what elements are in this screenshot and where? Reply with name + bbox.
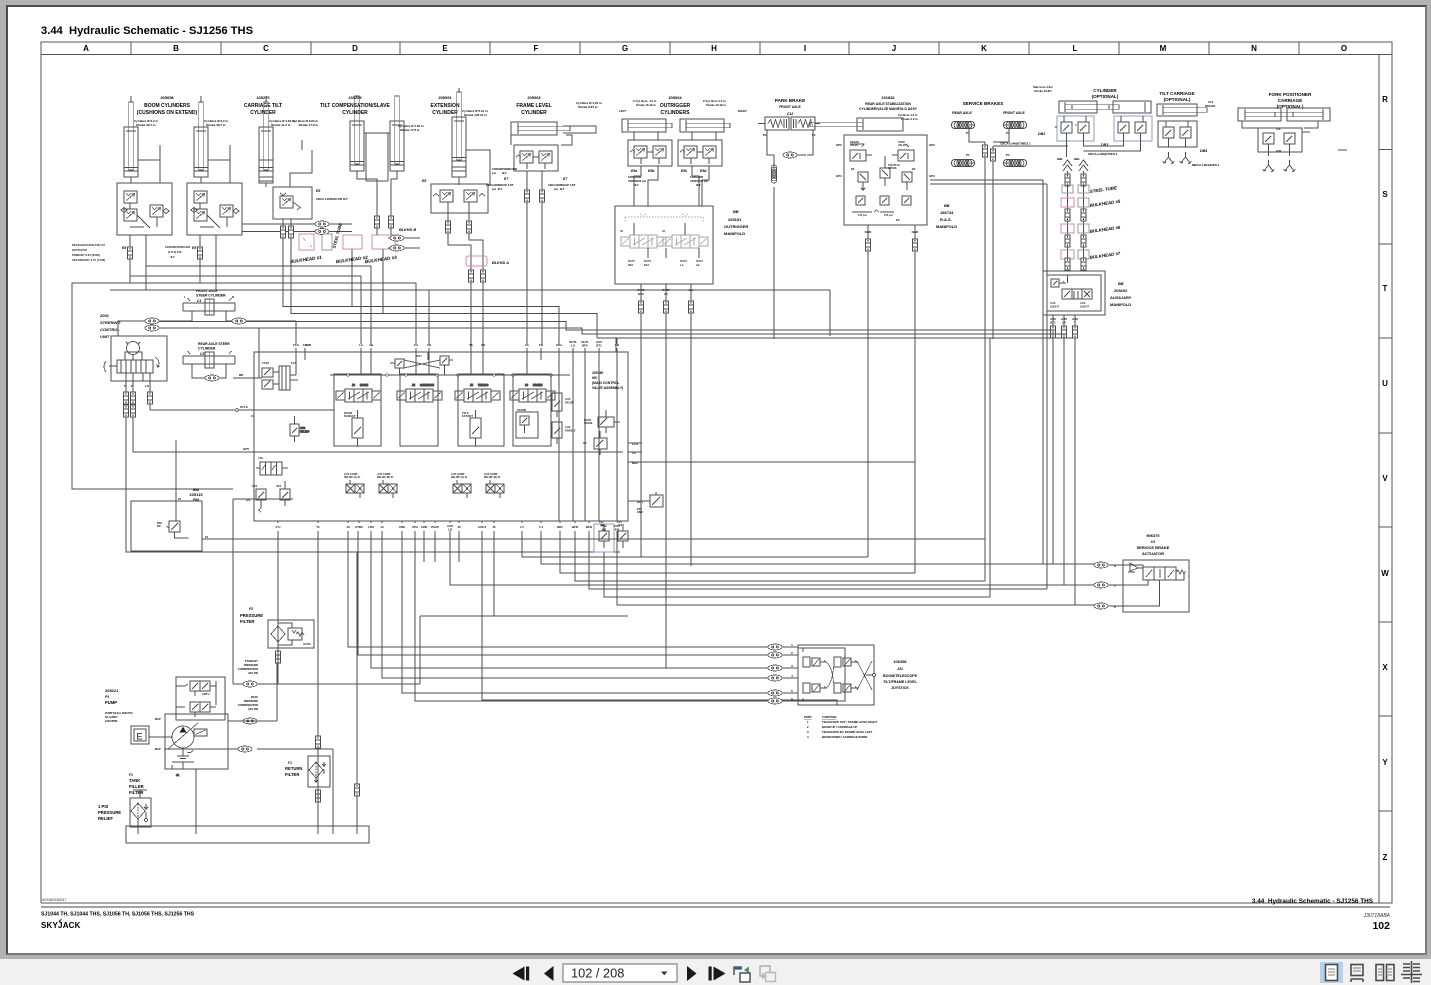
return filter bypass (315, 762, 326, 782)
svg-text:SERVICE BRAKES: SERVICE BRAKES (963, 101, 1004, 106)
svg-text:GP4: GP4 (276, 484, 282, 488)
label E8 frame level left (486, 177, 514, 191)
pump compensator box (176, 677, 225, 720)
bulkhead #2 pink (343, 235, 362, 249)
label RAS output couplers (865, 230, 919, 234)
svg-text:1: 1 (807, 720, 809, 724)
svg-text:VALVE ASSEMBLY): VALVE ASSEMBLY) (592, 386, 623, 390)
coupling riser 4a (1065, 258, 1070, 270)
optional valve right internals (1118, 116, 1146, 141)
svg-text:CPA: CPA (412, 525, 418, 529)
outrigger manifold spool left (621, 235, 666, 248)
counterbalance valve boom 2 (187, 183, 242, 235)
svg-text:S: S (1382, 190, 1388, 199)
label E8 frame level right (548, 177, 576, 191)
svg-text:Stroke 17.8 in: Stroke 17.8 in (400, 128, 420, 132)
label tilt compensation (320, 95, 390, 116)
svg-text:43 PSI: 43 PSI (303, 643, 311, 646)
svg-text:FRAME: FRAME (517, 408, 526, 412)
steering control unit (104, 336, 167, 381)
svg-text:R.A.S.: R.A.S. (940, 217, 952, 222)
wire peak line (228, 663, 277, 721)
svg-text:STEEL TUBE: STEEL TUBE (1089, 185, 1118, 194)
coupling steering Pb (131, 405, 136, 417)
coupling pill rear steer (205, 375, 219, 381)
svg-text:psi 3LT: psi 3LT (492, 187, 503, 191)
label auxiliary manifold (1110, 282, 1132, 307)
svg-text:I: I (804, 44, 806, 53)
coupling extension low 1 (469, 270, 474, 282)
wire NAP drop (868, 339, 915, 573)
svg-text:106356: 106356 (893, 659, 907, 664)
svg-text:CA: CA (414, 343, 418, 347)
label CBCA carriage (316, 189, 348, 201)
svg-text:AUX: AUX (1080, 301, 1086, 305)
svg-text:LA: LA (664, 292, 668, 296)
svg-text:DBL: DBL (1074, 157, 1080, 161)
label DB3 (1101, 143, 1108, 147)
svg-text:GP5: GP5 (243, 447, 249, 451)
svg-text:PRIMARY 8.61 [2036]: PRIMARY 8.61 [2036] (72, 253, 100, 257)
svg-text:200LBS: 200LBS (1205, 104, 1215, 108)
svg-text:(A)OUT: (A)OUT (1080, 305, 1089, 309)
svg-text:Stroke 16.8in: Stroke 16.8in (1034, 89, 1052, 93)
quick coupler fork 2 (1284, 160, 1296, 172)
svg-text:CYLINDERS: CYLINDERS (661, 110, 691, 116)
tank filler element (131, 803, 145, 819)
outrigger valve right (678, 140, 722, 166)
wire bulkhead risers (1068, 171, 1084, 271)
wire front steer to pills (159, 311, 296, 321)
svg-text:PEAK: PEAK (251, 695, 259, 699)
svg-text:RD: RD (239, 373, 244, 377)
coupling RAS right (913, 239, 918, 251)
svg-text:F: F (534, 44, 539, 53)
optional valve left (blue) (1057, 116, 1094, 141)
steel tube label right (1089, 185, 1118, 194)
svg-text:TILT CARRIAGE: TILT CARRIAGE (1159, 91, 1194, 96)
wire filler to tank (137, 819, 139, 826)
wire bus RAS left (522, 531, 868, 557)
svg-text:BR: BR (157, 525, 161, 528)
svg-text:BF4: BF4 (644, 263, 649, 267)
pump compensator valve 1 (176, 681, 216, 705)
wire bus aux join (589, 531, 1047, 589)
return filter element (309, 762, 323, 778)
svg-text:MBCA-LR(4)40ES.1: MBCA-LR(4)40ES.1 (1192, 163, 1220, 167)
label P4 ports (966, 131, 1010, 157)
svg-text:OUT2: OUT2 (644, 259, 651, 263)
wire bus RAS right (560, 531, 915, 573)
svg-text:OUT2: OUT2 (680, 259, 687, 263)
wire actuator P line (617, 531, 1094, 605)
coupling tilt comp 1 (375, 216, 380, 228)
svg-text:FRAME: FRAME (533, 383, 542, 387)
svg-text:E8c: E8c (681, 169, 687, 173)
next page button (687, 966, 697, 981)
svg-text:BULKHEAD #5: BULKHEAD #5 (1089, 199, 1121, 208)
svg-text:P5: P5 (178, 498, 182, 501)
coupling outrigger a (639, 301, 644, 313)
svg-text:LB: LB (448, 528, 452, 532)
optional cylinder left (1059, 101, 1109, 113)
svg-text:CB: CB (427, 343, 431, 347)
svg-text:CYLINDER: CYLINDER (198, 347, 216, 351)
label MAP ports (155, 717, 161, 751)
svg-text:BF2: BF2 (638, 292, 644, 296)
svg-text:BFA: BFA (582, 344, 588, 348)
note text boom pressures (72, 243, 191, 262)
bulkhead B label (399, 228, 416, 232)
svg-text:1: 1 (791, 643, 793, 647)
RAS lower valves (852, 196, 911, 222)
bottom X valve a (344, 473, 364, 498)
return filter box (308, 756, 330, 787)
pilot valve lower left (256, 456, 288, 475)
svg-text:BB: BB (944, 204, 950, 208)
svg-text:205058: 205058 (160, 95, 174, 100)
coupling pill RD3 (390, 245, 404, 251)
svg-text:205190: 205190 (592, 371, 603, 375)
svg-text:AUX: AUX (1050, 301, 1056, 305)
coupling pill peak (243, 718, 257, 724)
wire boom lines to manifold (72, 204, 830, 489)
svg-text:Y: Y (1382, 758, 1388, 767)
label steering control unit (99, 313, 120, 339)
tilt carriage valve (1158, 121, 1197, 147)
svg-text:BB: BB (733, 210, 739, 214)
svg-text:T: T (1114, 584, 1116, 588)
svg-text:[1715] PSI: [1715] PSI (168, 250, 182, 254)
svg-text:SKYJACK: SKYJACK (41, 921, 81, 930)
svg-text:E8: E8 (192, 246, 196, 250)
directional valve V3 (455, 383, 500, 402)
outrigger cylinder right (680, 119, 730, 132)
wire actuator pill links (1108, 565, 1160, 606)
outrigger notes (619, 99, 747, 113)
svg-text:P1: P1 (763, 133, 767, 137)
svg-text:3LT: 3LT (502, 171, 507, 175)
svg-text:P-U: P-U (276, 525, 281, 529)
label MBCA (1192, 163, 1220, 167)
svg-text:OUTRIGGER: OUTRIGGER (660, 103, 691, 109)
svg-text:PUMP: PUMP (105, 700, 117, 705)
svg-text:REAR AXLE: REAR AXLE (952, 111, 972, 115)
svg-text:205202: 205202 (1114, 288, 1128, 293)
extension cylinder (452, 92, 488, 177)
wire T1 return (317, 531, 319, 826)
outrigger manifold internals (620, 223, 703, 267)
svg-text:CBCA-LPN4020 PSI 3LT: CBCA-LPN4020 PSI 3LT (316, 197, 348, 201)
svg-text:P4: P4 (966, 153, 970, 157)
svg-text:F1: F1 (288, 761, 292, 765)
coupling pill standby (243, 681, 257, 687)
counterbalance valve carriage tilt (273, 187, 312, 219)
bulkhead #2 label (336, 255, 369, 264)
svg-text:FCA: FCA (293, 343, 299, 347)
svg-text:DB4: DB4 (1200, 149, 1207, 153)
fork positioner cylinder left (1238, 108, 1293, 121)
label frame level cylinder (516, 95, 551, 116)
label standby pressure (238, 659, 259, 675)
svg-text:AB: AB (369, 343, 373, 347)
svg-text:BULKHEAD #1: BULKHEAD #1 (290, 255, 323, 264)
wire low hook (482, 531, 837, 705)
label aux ports (1050, 317, 1078, 325)
svg-text:Stroke 39.7 in: Stroke 39.7 in (206, 123, 226, 127)
svg-text:TA: TA (469, 343, 473, 347)
svg-text:CPB: CPB (421, 525, 427, 529)
svg-text:906370: 906370 (1146, 533, 1160, 538)
directional valve V1 (336, 383, 381, 402)
svg-text:UNIT: UNIT (100, 334, 110, 339)
brake hose coil front upper (1003, 121, 1026, 128)
svg-text:4: 4 (807, 735, 809, 739)
svg-text:CMBR: CMBR (303, 343, 311, 347)
bulkhead #6 pink (1061, 224, 1089, 233)
svg-text:STEERING: STEERING (100, 320, 120, 325)
wire RAS outputs (868, 225, 915, 339)
svg-text:LRU: LRU (368, 525, 374, 529)
svg-text:[30750] PSI: [30750] PSI (72, 248, 87, 252)
wire pump outlet (164, 749, 333, 826)
svg-text:FUNCTION: FUNCTION (822, 715, 836, 719)
svg-text:J2: J2 (662, 229, 665, 233)
first page button (513, 967, 530, 981)
BM brake valve box (131, 501, 202, 551)
previous page button (544, 966, 554, 981)
wire extension cyl to valve (459, 88, 490, 185)
svg-text:AUX 2: AUX 2 (478, 525, 487, 529)
wire carriage valve outputs (283, 219, 597, 344)
svg-text:STAND-BY: STAND-BY (245, 659, 258, 663)
svg-text:(OPTIONAL): (OPTIONAL) (1092, 94, 1119, 99)
svg-text:OUT2: OUT2 (696, 259, 703, 263)
label extension cylinder (431, 95, 460, 116)
svg-text:FILTER: FILTER (129, 790, 143, 795)
svg-text:FCA: FCA (291, 361, 296, 365)
svg-text:Z: Z (1383, 853, 1388, 862)
svg-text:E7: E7 (563, 177, 568, 181)
svg-text:CARRIAGE: CARRIAGE (1278, 98, 1303, 103)
relief V4 box (516, 408, 538, 438)
svg-text:V2: V2 (1151, 540, 1155, 544)
svg-text:RIGHT: RIGHT (738, 109, 747, 113)
wire aux drop ends (1053, 330, 1075, 605)
coupling boom line 1 (122, 246, 132, 259)
wire actuator T line (450, 531, 1094, 585)
label RAS manifold (936, 204, 957, 229)
svg-text:PRESSURE: PRESSURE (98, 810, 121, 815)
two page mode (1376, 965, 1394, 981)
relief steering (290, 416, 310, 442)
bulkhead #6 label (1089, 225, 1121, 234)
wire tilt comp outputs (357, 171, 397, 235)
wire boom valve outputs down (130, 235, 216, 290)
svg-text:2: 2 (791, 651, 793, 655)
svg-text:CF.EF: CF.EF (262, 361, 270, 365)
svg-text:LA: LA (571, 344, 575, 348)
service brake actuator box (1123, 560, 1189, 612)
coupling riser 4b (1081, 258, 1086, 270)
label DBL pair (1057, 157, 1080, 161)
svg-text:AMP 2: AMP 2 (202, 693, 210, 696)
svg-text:SECONDARY 3.7V [1736]: SECONDARY 3.7V [1736] (72, 258, 105, 262)
svg-text:ACTUATOR: ACTUATOR (1142, 551, 1164, 556)
spool section box 1 (334, 374, 381, 446)
wire pump suction (195, 769, 197, 826)
label steering ports (124, 384, 149, 388)
coupling riser 3b (1081, 235, 1086, 247)
pres comp right (583, 431, 607, 455)
svg-text:VALVE: VALVE (898, 143, 907, 147)
tilt carriage cylinder (1157, 104, 1207, 116)
wire park brake junction (767, 130, 813, 155)
svg-text:J0: J0 (457, 525, 461, 529)
park brake hose coil (771, 165, 777, 183)
svg-text:W: W (1381, 569, 1389, 578)
svg-text:BOOM/TELESCOPE: BOOM/TELESCOPE (883, 674, 918, 678)
label 1psi relief (98, 804, 121, 821)
svg-text:2001: 2001 (99, 313, 110, 318)
tilt comp cylinder 1 (292, 96, 364, 171)
svg-text:d1: d1 (176, 773, 180, 777)
svg-text:GP: GP (583, 442, 587, 445)
outrigger manifold spool right (663, 235, 708, 248)
svg-text:FDL: FDL (1276, 127, 1281, 131)
svg-text:SPOOL: SPOOL (888, 166, 897, 170)
label tank filler filter (129, 773, 144, 795)
svg-text:CYLINDER/VALVE MANIFOLD ASSY: CYLINDER/VALVE MANIFOLD ASSY (859, 107, 918, 111)
wire carriage cyl to valve (259, 96, 312, 187)
svg-text:J: J (892, 44, 896, 53)
continuous scroll mode (1351, 965, 1363, 983)
single page mode (selected) (1320, 962, 1343, 983)
footer models list (41, 912, 195, 918)
svg-text:REAR AXLE STABILIZATION: REAR AXLE STABILIZATION (865, 102, 911, 106)
electric motor E (131, 726, 149, 744)
quick coupler tilt carriage 1 (1163, 152, 1175, 164)
svg-text:ADJ PSI: ADJ PSI (247, 707, 258, 711)
dash mark right margin (1338, 149, 1347, 151)
svg-text:205064: 205064 (668, 95, 682, 100)
bottom X valve c (451, 473, 471, 498)
svg-text:FB: FB (615, 343, 619, 347)
RAS relief column 3 (902, 167, 916, 190)
svg-text:LSU: LSU (258, 456, 263, 460)
wire joystick pill stubs (782, 647, 798, 701)
label return filter (285, 761, 302, 777)
wire frame level outputs (527, 171, 542, 206)
directional valve V4 (510, 383, 555, 402)
grid column letters (83, 44, 1347, 53)
svg-text:RELIEF: RELIEF (98, 816, 113, 821)
svg-text:FRONT AXLE: FRONT AXLE (779, 105, 801, 109)
label pressure filter (240, 607, 263, 624)
label front axle steer (196, 289, 226, 303)
svg-text:STEEL TUBE: STEEL TUBE (331, 222, 343, 249)
svg-text:U: U (1382, 379, 1388, 388)
svg-text:C12: C12 (787, 112, 794, 116)
svg-text:205221: 205221 (105, 688, 119, 693)
svg-text:PRESSURE: PRESSURE (244, 699, 259, 703)
counterbalance valve boom 1 (117, 183, 172, 235)
svg-text:CF: CF (243, 459, 247, 463)
svg-text:FORK POSITIONER: FORK POSITIONER (1269, 92, 1312, 97)
actuator valve (1123, 563, 1186, 602)
wire steering unit down (126, 373, 623, 552)
coupling service brake 1 (983, 145, 988, 157)
svg-text:BFN: BFN (586, 525, 592, 529)
spool section box 3 (458, 374, 504, 446)
footer page number (1372, 920, 1390, 932)
svg-text:RELIEF (A) 3L: RELIEF (A) 3L (344, 476, 361, 479)
svg-text:ENABLE: ENABLE (565, 429, 576, 433)
svg-text:4017: 4017 (416, 354, 422, 358)
svg-text:CYLINDER: CYLINDER (432, 110, 458, 116)
svg-text:(CUSHIONS ON EXTEND): (CUSHIONS ON EXTEND) (137, 110, 198, 116)
svg-text:4: 4 (791, 674, 793, 678)
svg-text:R: R (1382, 95, 1388, 104)
svg-text:N: N (1251, 44, 1257, 53)
svg-text:LA: LA (359, 343, 363, 347)
optional cylinder right (1072, 101, 1151, 113)
wire stub PAUX (435, 531, 459, 562)
svg-text:MANIFOLD: MANIFOLD (936, 224, 957, 229)
svg-text:E8d: E8d (700, 169, 707, 173)
svg-text:P4: P4 (205, 536, 209, 539)
joystick outer box (798, 645, 874, 705)
label C13 (1205, 100, 1215, 108)
svg-text:J31: J31 (897, 667, 903, 671)
footer doc code (42, 898, 66, 902)
svg-text:K: K (981, 44, 987, 53)
pressure filter (268, 620, 314, 648)
svg-text:GP4: GP4 (836, 174, 842, 178)
svg-text:GP3: GP3 (929, 143, 935, 147)
wire load sense drop (233, 499, 420, 684)
slave link frame (364, 133, 390, 181)
svg-text:5: 5 (791, 689, 793, 693)
FCA flow divider (254, 361, 298, 390)
footer section title right (1252, 898, 1374, 905)
svg-text:CARRIAGE TILT: CARRIAGE TILT (244, 103, 282, 109)
last page button (709, 967, 726, 981)
svg-text:B: B (173, 44, 179, 53)
svg-text:FILTER: FILTER (285, 772, 299, 777)
svg-text:J30718ABA: J30718ABA (1363, 913, 1391, 919)
svg-text:DECELERATION 2357.03: DECELERATION 2357.03 (72, 243, 105, 247)
wire service brakes (963, 125, 1015, 597)
wire staircase joystick 3 (371, 531, 768, 668)
svg-text:CRH: CRH (399, 525, 405, 529)
quick coupler fork 1 (1263, 160, 1275, 172)
bulkhead #7 label (1089, 251, 1121, 260)
wire boom to bulkhead pills (242, 224, 352, 232)
svg-text:J4: J4 (380, 525, 384, 529)
svg-text:NB: NB (602, 528, 606, 532)
svg-text:BLKHD A: BLKHD A (492, 261, 509, 265)
coupling riser 1a (1065, 174, 1070, 186)
svg-text:BT1: BT1 (596, 344, 602, 348)
coupling aux 3 (1073, 326, 1078, 338)
svg-text:GPa: GPa (556, 343, 562, 347)
joystick port table (804, 715, 877, 739)
wire outrigger cyls to valves (634, 132, 716, 140)
svg-text:TELESCOPE OUT / FRAME LEVEL RI: TELESCOPE OUT / FRAME LEVEL RIGHT (822, 720, 877, 724)
page number input box (563, 964, 677, 982)
tilt comp cylinder 2 (390, 96, 424, 171)
